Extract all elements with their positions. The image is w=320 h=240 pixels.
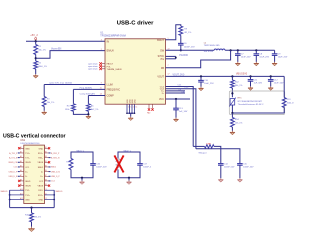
- pin RT wire: [73, 88, 105, 90]
- svg-text:Freq 400kHz: Freq 400kHz: [80, 86, 93, 89]
- pin LDO wire: [44, 84, 105, 86]
- svg-text:VOUT_5V0: VOUT_5V0: [173, 74, 185, 76]
- svg-text:FB: FB: [161, 67, 164, 70]
- svg-text:B_RX1_P: B_RX1_P: [51, 153, 60, 155]
- svg-text:14: 14: [136, 107, 138, 109]
- svg-text:TX2-: TX2-: [25, 190, 30, 192]
- svg-text:100nF_50V: 100nF_50V: [224, 166, 235, 168]
- svg-text:RX1-: RX1-: [38, 158, 43, 160]
- svg-text:B5: B5: [45, 166, 47, 168]
- wire FB sense: [166, 50, 231, 68]
- svg-text:USB_D_P: USB_D_P: [9, 171, 18, 173]
- wire + net label USB_D_N: [49, 171, 51, 173]
- svg-text:RX2+: RX2+: [38, 195, 44, 197]
- wire COMP to R5: [87, 96, 89, 104]
- svg-text:CC2: CC2: [51, 181, 55, 183]
- wire + net label USB_D_N: [18, 175, 20, 177]
- resistor R1 56k_1%: [34, 45, 38, 55]
- svg-text:VCC: VCC: [159, 98, 164, 101]
- pin COMP wire: [88, 95, 105, 97]
- no-connect cross: [48, 161, 50, 163]
- resistor R4 130k: [72, 104, 76, 112]
- svg-text:A_TX1_N: A_TX1_N: [9, 156, 18, 159]
- svg-text:TX1+: TX1+: [25, 153, 31, 155]
- wire node to R14: [231, 113, 233, 118]
- svg-text:1uF_50V: 1uF_50V: [254, 82, 263, 84]
- shield bus left: [10, 189, 24, 191]
- svg-text:100nF_25V: 100nF_25V: [184, 46, 195, 48]
- svg-text:10uF_25V: 10uF_25V: [278, 57, 288, 59]
- no-connect cross: [18, 184, 20, 186]
- svg-text:100nF_50V: 100nF_50V: [96, 166, 107, 168]
- thermistor highlight box: [229, 91, 284, 115]
- svg-text:GND: GND: [39, 200, 44, 202]
- wire Vconn EN to EN pin: [36, 51, 105, 59]
- svg-text:USB_D_N: USB_D_N: [9, 176, 18, 178]
- svg-text:THERM_SHDN: THERM_SHDN: [107, 69, 122, 71]
- svg-text:(pin) 3.3V, max 140mA: (pin) 3.3V, max 140mA: [50, 81, 73, 84]
- resistor R18 DNP greyed: [116, 159, 120, 170]
- wire to ground: [128, 178, 130, 181]
- svg-text:D-: D-: [41, 172, 43, 174]
- svg-text:B1: B1: [45, 147, 47, 149]
- ground: [231, 131, 233, 133]
- svg-text:B4: B4: [45, 161, 47, 163]
- svg-text:+5V_2: +5V_2: [30, 33, 38, 37]
- svg-text:8k2_1%: 8k2_1%: [91, 109, 99, 111]
- svg-text:USB_D_P: USB_D_P: [51, 176, 60, 178]
- op-amp U1 buck converter body: [105, 39, 166, 104]
- wire to R16: [31, 208, 33, 213]
- svg-text:NTCS0603E3TH3332JMT: NTCS0603E3TH3332JMT: [238, 101, 263, 103]
- svg-text:FREQ/SYNC: FREQ/SYNC: [107, 90, 121, 92]
- svg-text:CC1: CC1: [14, 167, 18, 169]
- svg-text:COMP: COMP: [107, 95, 115, 98]
- ground: [200, 87, 202, 89]
- junction on VIN: [35, 40, 37, 42]
- capacitor C13 1uF_16V: [175, 99, 177, 108]
- wire NTC bottom: [231, 105, 233, 113]
- wire + net label SBU2: [49, 166, 51, 168]
- svg-text:I_LIM: I_LIM: [106, 84, 112, 87]
- capacitor C10 10uF_25V: [200, 76, 202, 80]
- svg-text:17: 17: [168, 74, 170, 76]
- ground: [175, 118, 177, 120]
- thermistor RT1 NTC: [230, 99, 235, 105]
- svg-text:10uF_25V: 10uF_25V: [241, 57, 251, 59]
- svg-text:100nF_5: 100nF_5: [143, 166, 152, 168]
- ic GND pins: [126, 104, 128, 113]
- resistor R17 in loop: [69, 159, 73, 170]
- junction SW node: [180, 49, 182, 51]
- ground: [250, 86, 252, 88]
- wire + net label USB_D_P: [49, 175, 51, 177]
- capacitor C12 10uF_50V: [270, 75, 272, 77]
- wire node bottom rail: [232, 112, 284, 114]
- wire + net label A_TX1_P: [18, 152, 20, 154]
- wire R13 bottom: [283, 108, 285, 114]
- wire + net label A_TX1_N: [18, 157, 20, 159]
- no-connect cross: [48, 147, 50, 149]
- svg-text:B6: B6: [45, 170, 47, 172]
- svg-text:0R_1%: 0R_1%: [184, 32, 191, 34]
- svg-text:1k: 1k: [68, 165, 70, 167]
- svg-text:RX2-: RX2-: [38, 190, 43, 192]
- capacitor C7 10uF_25V on 5V rail: [237, 49, 239, 51]
- node divider tap: [35, 57, 37, 59]
- svg-text:49k9_1%: 49k9_1%: [38, 66, 47, 68]
- ground: [128, 181, 130, 183]
- DNP cross: [114, 155, 123, 172]
- wire to ground: [130, 113, 132, 116]
- svg-text:100k_1%: 100k_1%: [287, 102, 294, 104]
- wire R16 to ground: [31, 222, 33, 227]
- ground: [43, 111, 45, 113]
- resistor R15 DNP in series: [205, 145, 214, 148]
- svg-text:TPS566238RPAR-5V6A: TPS566238RPAR-5V6A: [100, 35, 126, 38]
- resistor R8 0R boot: [179, 26, 183, 35]
- wire C6 to SW: [180, 45, 182, 50]
- svg-text:CN1: CN1: [20, 140, 25, 142]
- capacitor C14 100nF_50V: [218, 163, 224, 165]
- wire VIN rail: [26, 40, 105, 42]
- svg-text:Isat 4.8 A: Isat 4.8 A: [204, 50, 214, 53]
- wire + net label CC1: [18, 166, 20, 168]
- svg-text:56k_1%: 56k_1%: [38, 49, 46, 51]
- capacitor C9 10uF_25V on 5V rail: [274, 50, 276, 54]
- ic PAD pins no-connect: [148, 104, 150, 108]
- wire R3 to ground: [43, 107, 45, 111]
- junction divider: [231, 75, 233, 77]
- wire RT to R4: [72, 89, 74, 103]
- no-connect cross: [18, 180, 20, 182]
- svg-text:PG: PG: [161, 59, 165, 61]
- junction FB tap: [230, 49, 232, 51]
- ground: [35, 74, 37, 76]
- resistor R12 56k_1%: [230, 80, 234, 88]
- wire + net label B_RX1_P: [49, 152, 51, 154]
- svg-text:Vconn EN: Vconn EN: [51, 49, 62, 51]
- ground chassis: [31, 227, 33, 229]
- svg-text:D-: D-: [25, 176, 27, 178]
- svg-text:GND: GND: [25, 200, 30, 202]
- svg-text:CC2: CC2: [185, 87, 189, 89]
- ground: [81, 181, 83, 183]
- wire R2 to ground: [35, 69, 37, 74]
- capacitor C11 1uF_50V: [249, 75, 251, 77]
- ground: [87, 115, 89, 117]
- wire + net label VBUS_CN: [18, 161, 20, 163]
- wire R12 to NTC node: [231, 88, 233, 97]
- svg-text:B8: B8: [45, 180, 47, 182]
- wire VOUT rail 5V: [225, 49, 275, 51]
- wire to R1: [35, 41, 37, 44]
- no-connect cross: [48, 184, 50, 186]
- svg-text:VBUS_CN: VBUS_CN: [8, 162, 18, 164]
- wire divider top: [231, 76, 233, 80]
- svg-text:BOOT: BOOT: [157, 39, 164, 42]
- svg-text:B9: B9: [45, 184, 47, 186]
- svg-text:IN: IN: [107, 40, 110, 43]
- svg-text:PGOOD: PGOOD: [179, 55, 188, 57]
- svg-text:Threshold between 81-90°C: Threshold between 81-90°C: [238, 103, 264, 106]
- wire LDO to R3: [43, 85, 45, 97]
- junction VCC cap: [175, 98, 177, 100]
- svg-text:B7: B7: [45, 175, 47, 177]
- svg-text:DNP: DNP: [207, 144, 212, 146]
- svg-text:10uF_25V: 10uF_25V: [204, 83, 214, 85]
- ground: [270, 86, 272, 88]
- svg-text:B_RX1_N: B_RX1_N: [51, 157, 60, 159]
- wire CC1 run: [193, 145, 204, 147]
- svg-text:B2: B2: [45, 152, 47, 154]
- loop bottom wires: [71, 165, 93, 178]
- ground: [255, 62, 257, 64]
- svg-text:SBU2: SBU2: [38, 167, 44, 169]
- resistor R3 24k: [42, 97, 46, 107]
- svg-text:GND: GND: [39, 148, 44, 150]
- svg-text:TBD-part: TBD-part: [198, 152, 207, 155]
- svg-text:TMPC0605-1R5: TMPC0605-1R5: [204, 45, 221, 47]
- svg-text:SHIELD: SHIELD: [1, 191, 8, 193]
- svg-text:USB-C driver: USB-C driver: [117, 21, 154, 27]
- resistor R16 1M: [30, 213, 34, 222]
- wire + net label CC2: [49, 180, 51, 182]
- svg-text:SHIELD: SHIELD: [56, 191, 63, 193]
- ground: [237, 62, 239, 64]
- wire R1-R2: [35, 55, 37, 62]
- capacitor C15 100nF_50V: [237, 163, 243, 165]
- capacitor C8 10uF_25V on 5V rail: [255, 49, 257, 51]
- ground: [220, 178, 222, 180]
- ground: [130, 117, 132, 119]
- resistor R13 100k parallel NTC: [282, 98, 286, 108]
- wire rail right down: [283, 76, 285, 97]
- svg-text:EN/UV: EN/UV: [107, 50, 115, 53]
- svg-text:3: 3: [101, 39, 102, 41]
- svg-text:GND: GND: [25, 148, 30, 150]
- svg-text:9: 9: [101, 83, 102, 85]
- wire to C14: [214, 146, 221, 163]
- capacitor C16 100nF_50V: [90, 163, 96, 165]
- inductor L1: [214, 49, 225, 50]
- svg-text:D-: D-: [162, 93, 165, 95]
- node thermistor top: [231, 92, 233, 94]
- wire + net label B_RX1_N: [49, 157, 51, 159]
- no-connect cross: [18, 147, 20, 149]
- resistor R5 8k2: [87, 104, 91, 112]
- svg-text:56k_1%: 56k_1%: [235, 85, 243, 87]
- svg-text:USB-C vertical connector: USB-C vertical connector: [3, 133, 66, 139]
- svg-text:TX1-: TX1-: [25, 158, 30, 160]
- svg-text:15: 15: [100, 88, 102, 90]
- pin THERM_SHDN open drain no-connect: [102, 68, 105, 70]
- svg-text:1M_5%: 1M_5%: [34, 216, 41, 218]
- svg-text:10uF_25V: 10uF_25V: [259, 57, 269, 59]
- svg-text:2: 2: [101, 49, 102, 51]
- svg-text:1uF_16V: 1uF_16V: [179, 111, 188, 113]
- wire join R4 R5 to ground: [73, 111, 88, 114]
- junction C10: [200, 75, 202, 77]
- shield bus right: [45, 189, 55, 191]
- svg-text:VBUS: VBUS: [25, 186, 31, 188]
- wire R8 to C6: [180, 35, 182, 43]
- svg-text:CC1: CC1: [178, 85, 182, 87]
- wire R14 to ground: [231, 127, 233, 131]
- loop bottom wires: [118, 165, 140, 178]
- svg-text:10uF_50V: 10uF_50V: [274, 82, 284, 84]
- ground: [274, 62, 276, 64]
- svg-text:VBUS: VBUS: [25, 162, 31, 164]
- capacitor C17 100nF_50V: [137, 163, 143, 165]
- wire shield join: [10, 207, 55, 209]
- svg-text:VOUT: VOUT: [157, 75, 164, 78]
- svg-text:B3: B3: [45, 156, 47, 158]
- resistor R14 10k: [230, 118, 234, 128]
- wire to ground: [81, 178, 83, 181]
- svg-text:RX1+: RX1+: [38, 153, 44, 155]
- svg-text:DX07S016JA1R1500: DX07S016JA1R1500: [20, 142, 40, 145]
- svg-text:VBUS: VBUS: [38, 162, 44, 164]
- svg-text:VBUS5V0: VBUS5V0: [236, 73, 248, 76]
- wire CC2 run: [196, 149, 240, 164]
- pin POL open drain no-connect: [102, 65, 105, 67]
- svg-text:A_TX1_P: A_TX1_P: [9, 152, 18, 155]
- resistor R2 49k9_1%: [34, 61, 38, 69]
- svg-text:SBU2: SBU2: [51, 167, 56, 169]
- pin FAULT open drain no-connect: [102, 63, 105, 65]
- svg-text:USB_D_N: USB_D_N: [51, 171, 60, 173]
- svg-text:100nF_50V: 100nF_50V: [243, 166, 254, 168]
- svg-text:TX2+: TX2+: [25, 195, 31, 197]
- svg-text:DM: DM: [182, 92, 185, 94]
- svg-text:7: 7: [168, 65, 169, 67]
- svg-text:Comp 500mA/V: Comp 500mA/V: [80, 92, 96, 95]
- ground: [239, 178, 241, 180]
- svg-text:SBU1: SBU1: [25, 181, 31, 183]
- svg-text:10k_1%: 10k_1%: [235, 122, 243, 124]
- wire + net label USB_D_P: [18, 171, 20, 173]
- capacitor C6 100nF_25V: [178, 42, 184, 44]
- svg-text:FAULT: FAULT: [107, 63, 114, 66]
- svg-text:VBUS: VBUS: [38, 186, 44, 188]
- svg-text:14: 14: [100, 94, 102, 96]
- svg-text:open drain: open drain: [88, 69, 97, 71]
- svg-text:24k_1%: 24k_1%: [47, 102, 55, 104]
